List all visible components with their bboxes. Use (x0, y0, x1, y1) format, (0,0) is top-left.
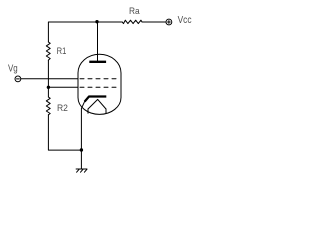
heater filament (88, 99, 106, 109)
wire Vg to grid lead (21, 78, 78, 80)
junction node plate/top rail (95, 20, 98, 23)
wire Ra to Vcc terminal (142, 21, 166, 23)
resistor R1 (46, 42, 50, 60)
wire divider node to grid2 lead (48, 86, 78, 88)
tube envelope U1 (78, 54, 121, 114)
wire R2 down to bottom rail (48, 115, 81, 150)
svg-text:R2: R2 (57, 103, 68, 114)
wire R1 to R2 vertical (47, 60, 49, 97)
resistor R2 (46, 97, 50, 115)
junction node cathode/bottom rail (80, 148, 83, 151)
wire plate lead from top rail to anode (97, 22, 99, 61)
wire top rail left segment (48, 22, 122, 42)
svg-text:Ra: Ra (129, 6, 140, 17)
junction node R1/R2 divider to g2 (47, 86, 50, 89)
resistor Ra (122, 20, 142, 23)
terminal Vg (15, 76, 21, 82)
cathode bar (85, 97, 107, 102)
svg-text:Vg: Vg (8, 63, 18, 74)
heater pin left (87, 109, 89, 113)
terminal Vcc (166, 19, 172, 25)
anode plate bar (89, 61, 106, 63)
ground symbol (76, 169, 87, 172)
grid g2 dashed electrode (80, 86, 116, 88)
wire cathode lead down to ground rail (81, 102, 84, 169)
grid g1 dashed electrode (80, 78, 116, 80)
heater pin right (105, 109, 107, 113)
svg-text:Vcc: Vcc (178, 14, 192, 25)
svg-text:R1: R1 (57, 45, 67, 56)
